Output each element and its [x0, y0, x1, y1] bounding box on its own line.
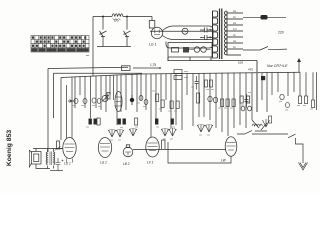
- wire left drop: [92, 17, 94, 77]
- tap wire 5: [227, 36, 243, 38]
- trimmer C17: [241, 106, 245, 111]
- trimmer C18: [248, 106, 252, 111]
- wire inner box: [54, 73, 143, 118]
- coil L3: [252, 124, 262, 126]
- dark cluster 4: [171, 119, 174, 125]
- component row: [68, 70, 315, 126]
- trimmer crown T6: [197, 124, 205, 132]
- trimmer C6: [92, 98, 96, 103]
- resistor R20: [247, 96, 250, 103]
- svg-text:LG 2: LG 2: [100, 161, 107, 165]
- svg-text:Koenig 853: Koenig 853: [6, 130, 13, 166]
- capacitor C19: [261, 76, 265, 80]
- trimmer C15: [286, 102, 290, 107]
- dark cluster 1: [89, 119, 97, 125]
- resistor R1: [172, 48, 179, 53]
- tap wire 4: [227, 30, 243, 32]
- control sub-box: [168, 43, 212, 58]
- mains line L: [243, 16, 286, 18]
- hum filter box: [165, 25, 167, 27]
- wire bottom: [97, 46, 131, 48]
- dark cluster 3: [155, 119, 158, 125]
- core: [220, 9, 222, 60]
- capacitor block C21: [174, 70, 182, 74]
- tap labels: [233, 9, 237, 49]
- resistor R15: [312, 100, 315, 108]
- wire to tube: [60, 148, 63, 150]
- trimmer crown T8: [263, 119, 270, 127]
- wire winding stem: [212, 11, 214, 57]
- resistor R19: [240, 96, 243, 103]
- trimmer crown T2: [116, 129, 124, 137]
- wire HT line: [48, 67, 128, 68]
- speaker LS: [32, 152, 42, 165]
- indicator tube LB: [123, 147, 133, 157]
- svg-text:LG 1: LG 1: [149, 43, 156, 47]
- trimmer C12: [213, 97, 217, 103]
- resistor R11: [226, 99, 229, 107]
- wire screen line: [133, 67, 160, 69]
- resistor R21: [151, 17, 153, 21]
- svg-text:Nur CR7+LE: Nur CR7+LE: [267, 64, 288, 68]
- tap wire 2: [227, 18, 243, 20]
- tap wire 3: [227, 24, 243, 26]
- svg-text:6,3: 6,3: [233, 27, 237, 31]
- rectifier tube LG1: [151, 27, 162, 38]
- svg-text:LB 2: LB 2: [123, 162, 130, 166]
- capacitor C2: [200, 35, 212, 40]
- resistor R16: [135, 118, 138, 125]
- value tick marks: [72, 87, 313, 140]
- wire: [126, 17, 128, 47]
- wire diagonals: [252, 120, 267, 131]
- resistor R22: [107, 93, 110, 100]
- trimmer C8: [139, 96, 143, 101]
- resistor R12: [232, 99, 235, 107]
- potentiometer P1: [57, 141, 60, 149]
- tap wire 1: [227, 12, 243, 14]
- capacitor C1: [200, 28, 212, 33]
- svg-text:4μ: 4μ: [209, 28, 213, 32]
- resistor R18: [269, 116, 272, 123]
- pilot lamp: [182, 28, 188, 34]
- wire winding stem: [226, 11, 228, 55]
- output transformer T2: [46, 152, 47, 165]
- choke DG: [112, 14, 123, 17]
- capacitor C13: [245, 94, 249, 108]
- trimmer crown T7: [205, 124, 213, 132]
- wire right drop: [256, 73, 258, 113]
- wire bottom run: [50, 170, 63, 172]
- rectifier cell D1: [100, 31, 107, 37]
- band switch table: [31, 36, 89, 56]
- svg-text:LV 1: LV 1: [147, 161, 154, 165]
- svg-text:100: 100: [238, 61, 243, 65]
- wire stub: [68, 100, 74, 103]
- primary winding: [213, 11, 218, 58]
- resistor R17: [97, 118, 100, 125]
- variable cap C20: [102, 96, 108, 102]
- resistor R23: [197, 93, 200, 103]
- wire speaker bottom: [36, 164, 54, 169]
- wire group right: [210, 72, 317, 136]
- svg-text:220: 220: [278, 31, 284, 35]
- mains plug: [261, 15, 268, 20]
- wire top feed: [93, 16, 152, 18]
- comb wires: [61, 72, 317, 140]
- wire main bus: [61, 72, 300, 77]
- trimmer C9: [144, 100, 148, 105]
- wire grid stubs: [162, 140, 166, 150]
- tube LD1: [63, 138, 76, 159]
- ground arrow: [299, 163, 308, 171]
- node dot: [159, 67, 161, 69]
- switch contact: [194, 47, 200, 53]
- svg-text:4a: 4a: [233, 9, 236, 13]
- tube LW2: [225, 137, 237, 157]
- svg-text:LD 1: LD 1: [64, 162, 71, 166]
- svg-text:4v: 4v: [233, 15, 236, 19]
- dark cluster 2: [118, 119, 126, 125]
- wire group mid: [117, 73, 204, 137]
- tap wire 6: [227, 42, 243, 44]
- trimmer C5: [83, 98, 87, 103]
- resistor R14: [305, 96, 308, 104]
- resistor R8: [205, 80, 208, 87]
- trimmer crown T1: [108, 129, 116, 137]
- trimmer crown T3: [129, 128, 137, 136]
- trimmer crown T5: [169, 128, 177, 136]
- rectifier cell D2: [124, 31, 131, 37]
- wire anode line: [133, 148, 226, 150]
- wire left drop: [47, 69, 49, 153]
- trimmer crowns: [108, 116, 272, 137]
- tap wire 7: [227, 48, 243, 50]
- resistor R3: [122, 66, 131, 71]
- resistor R4: [156, 94, 159, 102]
- svg-text:4μ: 4μ: [209, 35, 213, 39]
- resistor R10: [221, 99, 224, 107]
- resistor R5: [161, 100, 164, 108]
- secondary winding: [224, 11, 227, 55]
- power supply section: [93, 14, 213, 77]
- main buses: [48, 57, 301, 152]
- wire tube leads: [162, 26, 209, 40]
- wire feedback loop: [168, 142, 231, 163]
- svg-text:4v: 4v: [233, 33, 236, 37]
- wire psu link: [167, 57, 169, 61]
- wire psu bottom drop: [168, 57, 190, 61]
- resistor R6: [170, 101, 173, 109]
- speaker section: [29, 141, 63, 171]
- electrolytic C16: [56, 158, 64, 171]
- IF can L2: [115, 92, 122, 112]
- svg-text:4v: 4v: [233, 45, 236, 49]
- svg-text:470: 470: [248, 68, 253, 72]
- arrow up: [297, 58, 301, 62]
- tap wire 8: [227, 54, 241, 56]
- trimmer C11: [208, 96, 212, 102]
- mains transformer T1: [168, 9, 257, 73]
- capacitor block C22: [174, 76, 182, 80]
- wire bottom run: [168, 57, 257, 72]
- resistor R2: [183, 47, 189, 53]
- resistor R7: [176, 101, 179, 109]
- wire inner line: [150, 31, 212, 39]
- tube LV1: [146, 137, 159, 157]
- tubes: [63, 137, 237, 163]
- resistor R13: [299, 96, 302, 104]
- trimmer C4: [74, 98, 78, 103]
- tick labels: [184, 72, 188, 78]
- svg-text:DG: DG: [114, 19, 119, 23]
- svg-text:2a: 2a: [233, 39, 236, 43]
- tube LG2: [98, 138, 111, 158]
- node dot: [126, 16, 128, 18]
- trimmer C7: [97, 99, 101, 104]
- trimmer crown T4: [161, 128, 169, 136]
- svg-text:1,75: 1,75: [150, 63, 156, 67]
- mains line N with switch: [243, 47, 287, 51]
- svg-text:LW: LW: [221, 159, 227, 163]
- node dot: [130, 98, 134, 102]
- wire: [102, 17, 104, 47]
- wire output line with switch S1: [237, 131, 303, 163]
- wire speaker top: [33, 149, 63, 153]
- wire group left: [61, 75, 114, 140]
- capacitor C10: [195, 76, 199, 90]
- wire arrow riser: [298, 61, 300, 72]
- trimmer C14: [280, 94, 284, 100]
- node dot: [102, 16, 104, 18]
- resistor R9: [210, 80, 213, 87]
- svg-text:2a: 2a: [233, 21, 236, 25]
